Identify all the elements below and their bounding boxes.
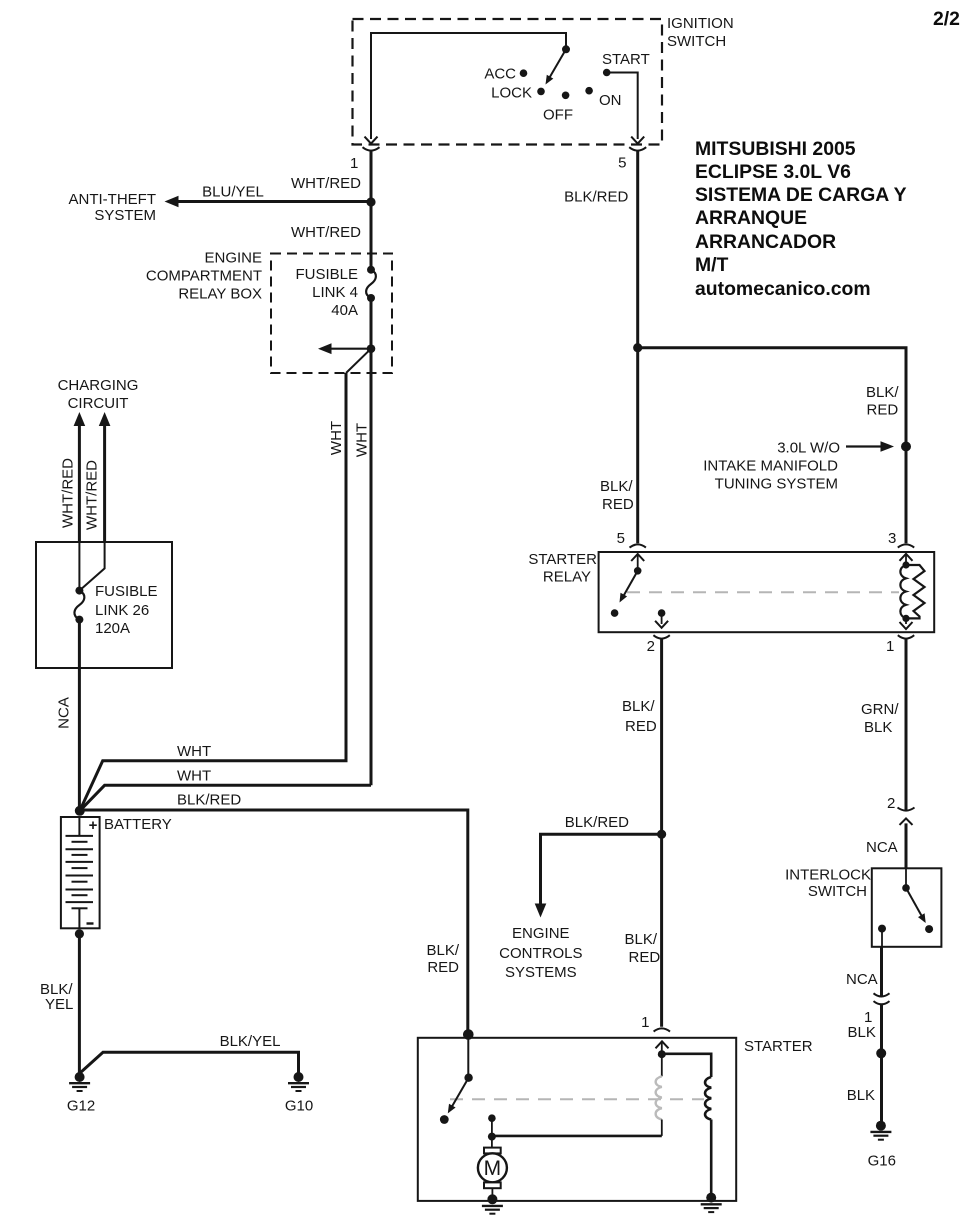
contact ON (585, 87, 593, 95)
wires inside fusible box (78, 542, 80, 591)
svg-text:5: 5 (618, 155, 626, 172)
svg-text:1: 1 (641, 1014, 649, 1031)
ignition switch box (dashed) (353, 19, 663, 145)
wire ignition pin5 BLK/RED down to starter relay (636, 152, 639, 544)
wire NCA battery feed (78, 620, 81, 808)
svg-text:BLK/: BLK/ (625, 931, 658, 948)
svg-text:BATTERY: BATTERY (104, 816, 172, 833)
svg-text:ENGINE: ENGINE (204, 250, 262, 267)
wire BLK/RED to starter (80, 810, 468, 1035)
svg-text:automecanico.com: automecanico.com (695, 278, 871, 300)
pin 5 connector (ignition exit) (631, 137, 644, 144)
relay switch (637, 554, 639, 571)
motor contact (488, 1114, 496, 1122)
svg-text:LINK 4: LINK 4 (312, 284, 358, 301)
svg-text:BLK: BLK (848, 1024, 876, 1041)
svg-text:OFF: OFF (543, 107, 573, 124)
svg-text:G12: G12 (67, 1098, 95, 1115)
svg-text:RED: RED (867, 402, 899, 419)
svg-text:WHT/RED: WHT/RED (84, 460, 101, 530)
wire NCA below interlock (880, 947, 883, 997)
svg-text:2: 2 (647, 638, 655, 655)
svg-text:BLK/RED: BLK/RED (565, 814, 629, 831)
svg-text:3.0L W/O: 3.0L W/O (777, 440, 840, 457)
relay internal dashed line (627, 591, 899, 593)
starter pin1 node (661, 1041, 663, 1054)
svg-text:ARRANQUE: ARRANQUE (695, 207, 807, 229)
node anti-theft junction (366, 197, 375, 206)
wire pin1 WHT/RED down (370, 152, 373, 271)
connector 1 inline (874, 993, 890, 996)
wire coil to motor node (492, 1135, 662, 1138)
svg-text:ON: ON (599, 92, 622, 109)
ground G16 (868, 1121, 896, 1170)
relay coil (905, 554, 907, 565)
svg-text:1: 1 (886, 638, 894, 655)
svg-text:ANTI-THEFT: ANTI-THEFT (69, 191, 157, 208)
svg-text:M: M (484, 1157, 502, 1180)
svg-text:120A: 120A (95, 620, 130, 637)
svg-text:WHT: WHT (177, 768, 211, 785)
svg-text:INTAKE MANIFOLD: INTAKE MANIFOLD (703, 458, 838, 475)
wire ignition internal feed (371, 33, 566, 139)
svg-text:WHT: WHT (328, 421, 345, 455)
svg-text:BLK/RED: BLK/RED (564, 189, 628, 206)
connector 2 inline (898, 808, 915, 811)
interlock switch box (872, 868, 942, 947)
contact LOCK (537, 88, 545, 96)
svg-text:SISTEMA DE CARGA Y: SISTEMA DE CARGA Y (695, 184, 907, 206)
svg-text:SYSTEMS: SYSTEMS (505, 964, 577, 981)
svg-text:BLU/YEL: BLU/YEL (202, 184, 264, 201)
wire battery to G12 (78, 934, 81, 1074)
svg-text:RED: RED (602, 496, 634, 513)
starter solenoid switch (467, 1037, 469, 1078)
svg-text:STARTER: STARTER (528, 551, 597, 568)
svg-text:2: 2 (887, 795, 895, 812)
ignition switch arm (548, 49, 567, 81)
wire BLU/YEL to anti-theft system (175, 200, 371, 203)
svg-text:LOCK: LOCK (491, 85, 532, 102)
relay pin 2 contact (658, 609, 666, 617)
starter relay box (599, 552, 935, 632)
wire WHT left column (80, 373, 346, 811)
svg-text:1: 1 (350, 155, 358, 172)
svg-text:G16: G16 (868, 1153, 896, 1170)
node battery positive junction (75, 806, 85, 816)
pin 3 connector (relay entry) (898, 544, 914, 547)
svg-text:COMPARTMENT: COMPARTMENT (146, 268, 262, 285)
svg-text:RED: RED (625, 718, 657, 735)
wire branch to engine controls (541, 834, 662, 906)
svg-text:M/T: M/T (695, 254, 729, 276)
starter hold-in coil (gray) (661, 1054, 663, 1076)
wire NCA to interlock (905, 823, 908, 869)
wire START to pin 5 (607, 73, 638, 140)
svg-text:ACC: ACC (484, 66, 516, 83)
engine compartment relay box (dashed) (271, 254, 392, 374)
pin 1 connector (starter entry) (654, 1028, 670, 1031)
title block automecanico (695, 138, 907, 300)
node starter feed entry (463, 1029, 474, 1040)
wire branch to relay pin 3 (638, 348, 906, 544)
wire below fusible link 4 (370, 298, 373, 785)
fusible link 26 box (36, 542, 172, 668)
ignition switch pivot dot (562, 45, 570, 53)
motor M (491, 1137, 493, 1148)
svg-text:BLK/: BLK/ (622, 698, 655, 715)
pin 1 connector (relay exit) (900, 622, 913, 629)
pin 5 connector (relay entry) (630, 544, 646, 547)
node BLK/RED branch junction (633, 343, 642, 352)
svg-text:SYSTEM: SYSTEM (94, 207, 156, 224)
starter internal dashed line (450, 1098, 704, 1100)
svg-text:ARRANCADOR: ARRANCADOR (695, 231, 836, 253)
wire relay pin1 GRN/BLK down (905, 640, 908, 811)
node BLK splice (876, 1048, 886, 1058)
svg-text:BLK/: BLK/ (866, 384, 899, 401)
svg-text:RED: RED (427, 959, 459, 976)
starter pull-in coil (705, 1077, 711, 1120)
ground starter motor (482, 1194, 503, 1213)
svg-text:RELAY: RELAY (543, 569, 591, 586)
svg-text:NCA: NCA (56, 697, 73, 729)
battery (61, 817, 100, 928)
svg-text:WHT: WHT (177, 743, 211, 760)
svg-text:40A: 40A (331, 302, 358, 319)
svg-text:RELAY BOX: RELAY BOX (178, 286, 262, 303)
svg-text:NCA: NCA (866, 839, 898, 856)
svg-text:MITSUBISHI 2005: MITSUBISHI 2005 (695, 138, 856, 160)
svg-text:BLK: BLK (847, 1087, 875, 1104)
svg-text:ECLIPSE 3.0L V6: ECLIPSE 3.0L V6 (695, 161, 851, 183)
svg-text:CIRCUIT: CIRCUIT (68, 395, 129, 412)
svg-text:BLK/: BLK/ (426, 942, 459, 959)
starter box (418, 1038, 736, 1201)
wire WHT right column (80, 785, 371, 811)
svg-text:WHT/RED: WHT/RED (291, 224, 361, 241)
svg-text:BLK/: BLK/ (600, 478, 633, 495)
ground G10 (285, 1072, 313, 1115)
svg-text:CONTROLS: CONTROLS (499, 945, 582, 962)
svg-text:BLK/RED: BLK/RED (177, 792, 241, 809)
wire relay pin2 BLK/RED down to starter (660, 640, 663, 1027)
svg-text:3: 3 (888, 530, 896, 547)
node battery negative (75, 929, 84, 938)
svg-text:BLK: BLK (864, 719, 892, 736)
arrow tap to left (329, 348, 371, 350)
svg-text:BLK/YEL: BLK/YEL (220, 1033, 281, 1050)
svg-text:LINK 26: LINK 26 (95, 602, 149, 619)
svg-text:START: START (602, 51, 650, 68)
node engine controls junction (657, 830, 666, 839)
svg-text:GRN/: GRN/ (861, 701, 899, 718)
node relay box tap (367, 344, 376, 353)
pin 1 connector (ignition exit) (365, 137, 378, 144)
ground starter right (701, 1193, 722, 1213)
wire to pull-in coil (662, 1054, 711, 1077)
svg-text:TUNING SYSTEM: TUNING SYSTEM (715, 476, 838, 493)
svg-text:YEL: YEL (45, 996, 73, 1013)
svg-text:SWITCH: SWITCH (808, 883, 867, 900)
svg-text:G10: G10 (285, 1098, 313, 1115)
svg-text:ENGINE: ENGINE (512, 925, 570, 942)
svg-text:WHT/RED: WHT/RED (291, 175, 361, 192)
svg-text:NCA: NCA (846, 971, 878, 988)
svg-text:STARTER: STARTER (744, 1038, 813, 1055)
interlock switch (905, 868, 907, 888)
ground G12 (67, 1072, 95, 1115)
svg-text:CHARGING: CHARGING (58, 377, 139, 394)
svg-text:SWITCH: SWITCH (667, 33, 726, 50)
svg-text:WHT/RED: WHT/RED (60, 458, 77, 528)
svg-text:5: 5 (617, 530, 625, 547)
svg-text:FUSIBLE: FUSIBLE (295, 266, 358, 283)
svg-text:+: + (89, 817, 98, 834)
wire diagonal to second feed (346, 349, 371, 373)
node 3.0L tap (901, 442, 911, 452)
svg-text:FUSIBLE: FUSIBLE (95, 583, 158, 600)
svg-text:INTERLOCK: INTERLOCK (785, 867, 871, 884)
contact OFF (562, 92, 570, 100)
contact START (603, 69, 611, 77)
wire coil to ground (710, 1120, 713, 1199)
wire BLK/YEL to G10 (80, 1052, 299, 1073)
pin 2 connector (relay exit) (655, 621, 668, 628)
svg-text:IGNITION: IGNITION (667, 15, 734, 32)
svg-text:RED: RED (629, 949, 661, 966)
svg-text:2/2: 2/2 (933, 8, 960, 30)
contact ACC (520, 69, 528, 77)
fusible link 26 120A (75, 587, 83, 595)
wire BLK (880, 1005, 883, 1122)
arrow 3.0L W/O tap (846, 445, 883, 447)
svg-text:WHT: WHT (354, 423, 371, 457)
